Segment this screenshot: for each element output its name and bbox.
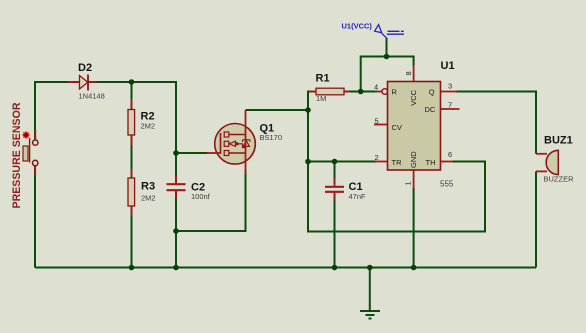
node rail pin1 junction — [411, 265, 417, 271]
node C1/TR junction — [332, 159, 338, 165]
svg-text:47nF: 47nF — [349, 192, 367, 201]
svg-text:7: 7 — [448, 101, 452, 110]
svg-text:8: 8 — [404, 71, 413, 75]
pin 4 bubble — [382, 89, 388, 95]
node drain junction — [305, 107, 311, 113]
wire switch bottom to ground rail — [34, 163, 36, 268]
gate lead — [206, 152, 220, 154]
ground — [360, 311, 380, 319]
svg-text:5: 5 — [375, 117, 379, 126]
node D2/R2 junction — [129, 79, 135, 85]
svg-text:R3: R3 — [141, 181, 155, 193]
svg-text:U1: U1 — [441, 60, 455, 72]
capacitor C2 — [167, 176, 211, 201]
switch contact bottom — [33, 160, 38, 165]
svg-text:2M2: 2M2 — [141, 194, 156, 203]
node rail R3 junction — [129, 265, 135, 271]
node gate/C2 junction — [173, 150, 179, 156]
transistor Q1 — [206, 110, 282, 174]
svg-text:GND: GND — [409, 151, 418, 168]
wire VCC top horizontal — [361, 57, 414, 92]
svg-text:R: R — [392, 87, 398, 96]
resistor R2 — [128, 99, 155, 147]
svg-text:PRESSURE SENSOR: PRESSURE SENSOR — [11, 102, 23, 208]
switch pin stubs — [34, 130, 36, 140]
buzzer BUZ1 — [536, 135, 574, 184]
svg-text:R1: R1 — [316, 73, 330, 85]
wire pin1 GND to rail — [413, 187, 415, 268]
node C2 bottom junction — [173, 228, 179, 234]
svg-text:3: 3 — [448, 82, 452, 91]
wire R1-left vertical (drain/TR net) — [308, 92, 485, 232]
svg-text:D2: D2 — [78, 62, 92, 74]
capacitor C1 — [325, 178, 366, 201]
wire TR horizontal to pin 2 — [308, 161, 376, 163]
wire Q1 drain to R1/TR vertical — [246, 109, 309, 111]
pin 8 stub — [413, 65, 415, 82]
svg-text:1M: 1M — [316, 94, 326, 103]
pin 7 stub — [440, 108, 460, 110]
svg-text:6: 6 — [448, 150, 452, 159]
wire C1 upper lead — [334, 162, 336, 185]
wire bottom ground rail — [35, 267, 536, 269]
svg-text:TH: TH — [426, 158, 436, 167]
body pads — [224, 132, 229, 137]
svg-text:2M2: 2M2 — [141, 122, 156, 131]
wire gate feed from node to Q1 gate — [176, 152, 208, 154]
switch actuator star — [22, 131, 30, 139]
gate bar — [220, 133, 222, 154]
pin 6 stub — [440, 161, 453, 163]
svg-text:BUZ1: BUZ1 — [544, 135, 573, 147]
resistor R1 — [309, 73, 350, 104]
body diode — [243, 139, 251, 141]
diode D2 — [68, 62, 105, 101]
svg-text:BS170: BS170 — [260, 133, 283, 142]
wire ground stub — [369, 268, 371, 312]
switch lever bar — [23, 146, 28, 161]
node TR junction — [305, 159, 311, 165]
svg-text:1N4148: 1N4148 — [79, 92, 105, 101]
pin 2 stub — [375, 161, 389, 163]
svg-text:VCC: VCC — [409, 89, 418, 105]
drain internal line — [229, 134, 246, 136]
wire C1 lower lead to ground rail — [334, 193, 336, 268]
pressure sensor switch — [11, 102, 38, 208]
svg-text:DC: DC — [425, 105, 436, 114]
wire Q1 source to C2 bottom node — [176, 170, 246, 231]
svg-text:Q: Q — [429, 87, 435, 96]
wire Q output pin3 to buzzer top — [456, 92, 536, 154]
node rail C1 junction — [332, 265, 338, 271]
resistor R3 — [128, 169, 156, 216]
svg-text:100nf: 100nf — [191, 192, 211, 201]
IC body — [388, 82, 441, 171]
switch lever line — [29, 138, 31, 163]
wire R1 right to pin4 node — [344, 91, 377, 93]
wire VCC drop and top run to pin 8 — [386, 39, 388, 57]
wire C2 lower lead to ground rail — [175, 192, 177, 268]
substrate arrow — [229, 141, 235, 146]
pin 5 stub — [374, 124, 388, 126]
svg-text:BUZZER: BUZZER — [544, 175, 575, 184]
svg-text:U1(VCC): U1(VCC) — [342, 22, 373, 31]
wire C2 upper lead segment — [175, 153, 177, 183]
svg-text:4: 4 — [374, 83, 378, 92]
pin 3 stub — [440, 91, 458, 93]
power U1(VCC) — [342, 22, 405, 39]
pin 1 stub — [413, 170, 415, 188]
svg-text:1: 1 — [404, 181, 413, 185]
wire R2/R3 divider vertical — [131, 82, 133, 268]
wire top-left rail from switch up and across to vertical drop — [35, 82, 176, 153]
wire buzzer bottom to ground rail — [535, 171, 537, 267]
node rail ground junction — [367, 265, 373, 271]
pin 4 stub — [375, 91, 382, 93]
node VCC top junction — [384, 54, 390, 60]
svg-text:CV: CV — [392, 123, 402, 132]
drain-source lead — [245, 110, 247, 174]
node pin4/R1 junction — [358, 89, 364, 95]
source internal line — [229, 152, 246, 154]
node rail C2 junction — [173, 265, 179, 271]
switch contact top — [33, 140, 38, 145]
IC U1 555 timer — [374, 60, 460, 189]
svg-text:TR: TR — [392, 158, 403, 167]
svg-text:2: 2 — [375, 153, 379, 162]
svg-text:555: 555 — [440, 180, 454, 189]
